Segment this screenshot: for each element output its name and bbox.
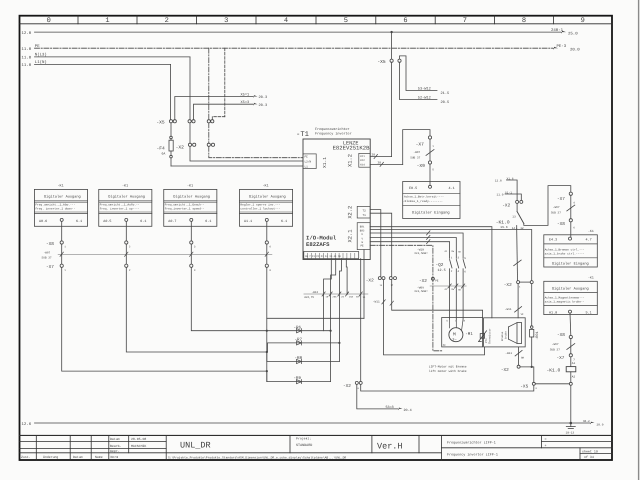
svg-text:14: 14 bbox=[512, 227, 516, 230]
svg-text:freq. inverter_1 down--: freq. inverter_1 down-- bbox=[35, 207, 75, 211]
svg-text:L1: L1 bbox=[305, 165, 309, 168]
column numbers 0-9 bbox=[47, 17, 585, 25]
terminal X2 pair (T2 wire) bbox=[378, 277, 385, 280]
svg-text:Achse_1_Bremse ctrl.---: Achse_1_Bremse ctrl.--- bbox=[545, 247, 585, 251]
wire K11 bbox=[370, 156, 391, 158]
svg-text:=: = bbox=[545, 438, 547, 442]
svg-text:12.5: 12.5 bbox=[438, 268, 446, 273]
svg-text:30: 30 bbox=[378, 161, 382, 164]
svg-text:sheet 19: sheet 19 bbox=[582, 449, 598, 453]
wire N to inverter bbox=[190, 146, 303, 161]
svg-text:A2: A2 bbox=[572, 376, 576, 379]
svg-text:20.3: 20.3 bbox=[259, 103, 268, 108]
svg-text:Achse_1_Betr.bereit----: Achse_1_Betr.bereit---- bbox=[404, 195, 444, 199]
svg-text:of 34: of 34 bbox=[584, 455, 594, 459]
svg-text:SUB 37: SUB 37 bbox=[550, 349, 560, 352]
svg-text:PE: PE bbox=[361, 245, 365, 248]
svg-text:Datum: Datum bbox=[73, 455, 83, 459]
svg-text:-K1: -K1 bbox=[588, 275, 594, 279]
svg-text:4.1: 4.1 bbox=[449, 186, 455, 191]
svg-text:-X2: -X2 bbox=[366, 278, 374, 283]
cable W13 line bbox=[304, 293, 368, 295]
svg-text:28.05.08: 28.05.08 bbox=[131, 437, 146, 441]
svg-text:Ver.H: Ver.H bbox=[377, 442, 403, 452]
svg-text:PE: PE bbox=[35, 44, 40, 49]
svg-text:A1: A1 bbox=[572, 362, 576, 365]
terminal X7 row bbox=[60, 264, 268, 267]
svg-text:-X8: -X8 bbox=[557, 222, 565, 227]
svg-text:PE-3: PE-3 bbox=[557, 44, 567, 49]
svg-text:Datum: Datum bbox=[110, 437, 120, 441]
svg-text:-W11: -W11 bbox=[373, 301, 380, 304]
terminal X2 pair (PE branch) bbox=[208, 123, 210, 143]
svg-text:Digitaler Ausgang: Digitaler Ausgang bbox=[552, 286, 589, 291]
wire X2 to brake box bbox=[517, 284, 519, 318]
wire coil A2 to X5 bbox=[535, 383, 569, 385]
module bottom terminal strip bbox=[304, 252, 359, 259]
column header row bbox=[20, 16, 613, 24]
svg-text:-X7: -X7 bbox=[46, 265, 54, 270]
svg-text:-KlemLa_1_ready--------: -KlemLa_1_ready-------- bbox=[403, 199, 443, 203]
svg-text:-K1: -K1 bbox=[187, 183, 193, 188]
cable W11 crossing (T wires) bbox=[382, 300, 394, 306]
svg-text:19.8: 19.8 bbox=[500, 226, 507, 229]
svg-text:10-13: 10-13 bbox=[566, 431, 575, 434]
svg-text:-X7: -X7 bbox=[416, 141, 425, 147]
wire 53-W12 to sheet 21.5 bbox=[400, 56, 438, 91]
terminal X7 (coil chain) bbox=[569, 354, 572, 357]
svg-text:-X2: -X2 bbox=[343, 384, 351, 389]
svg-text:-W10: -W10 bbox=[417, 248, 424, 251]
cable W10 label bbox=[414, 248, 428, 255]
cable W07 crossing (coil chain) bbox=[567, 344, 575, 350]
svg-text:Frequency inverter LIFP-1: Frequency inverter LIFP-1 bbox=[447, 453, 498, 458]
svg-text:4.7: 4.7 bbox=[586, 238, 592, 243]
svg-text:X1.2: X1.2 bbox=[348, 154, 354, 167]
terminal X2 pair (N branch) bbox=[189, 123, 191, 143]
svg-text:-Q2: -Q2 bbox=[436, 263, 444, 268]
svg-text:BR1: BR1 bbox=[360, 226, 365, 229]
svg-text:-R01: -R01 bbox=[535, 331, 540, 340]
svg-text:S:\Projekte_Produkte\Produkte_: S:\Projekte_Produkte\Produkte_Standard\A… bbox=[168, 455, 346, 459]
svg-text:20A: 20A bbox=[333, 296, 338, 299]
wire U phase bbox=[370, 233, 463, 258]
terminal X9 bbox=[428, 161, 431, 164]
svg-text:PE: PE bbox=[305, 156, 309, 159]
svg-text:Frequency inverter: Frequency inverter bbox=[315, 132, 352, 137]
wire PTC top bbox=[392, 280, 483, 318]
terminal X5 pair 1 bbox=[169, 120, 176, 123]
svg-text:12.0: 12.0 bbox=[495, 179, 502, 182]
wire N drop to X5 bbox=[189, 57, 191, 120]
PLC input box E4.3 bbox=[544, 229, 598, 267]
svg-text:6A: 6A bbox=[162, 152, 166, 156]
svg-text:4x1,5mm²: 4x1,5mm² bbox=[414, 252, 428, 255]
wire L1 to inverter bbox=[171, 165, 303, 167]
svg-text:Freq.umricht._1_Aufw.--: Freq.umricht._1_Aufw.-- bbox=[100, 202, 140, 206]
node junction on bus 12.0 bbox=[390, 31, 392, 33]
brake coil symbol bbox=[509, 323, 522, 344]
pin marks at X2 pairs bbox=[358, 284, 538, 390]
svg-text:Gepr.: Gepr. bbox=[110, 449, 120, 453]
wire K14 riser to X7 bbox=[403, 130, 430, 165]
svg-text:Digitaler Eingang: Digitaler Eingang bbox=[552, 262, 589, 267]
svg-text:-X7: -X7 bbox=[557, 356, 565, 361]
svg-text:M: M bbox=[453, 331, 456, 337]
wire BR1 bbox=[370, 227, 492, 318]
wire 51-1 from sheet 11.0 bbox=[497, 191, 513, 196]
svg-text:-W11: -W11 bbox=[505, 352, 512, 355]
bus PE (dash-dot) bbox=[35, 47, 554, 49]
svg-text:Achse_1_Magnetbremse---: Achse_1_Magnetbremse--- bbox=[545, 295, 585, 299]
svg-text:A0.6: A0.6 bbox=[39, 219, 47, 224]
svg-text:BR2: BR2 bbox=[360, 229, 365, 232]
svg-text:-X7: -X7 bbox=[557, 197, 565, 202]
svg-text:L2/N: L2/N bbox=[305, 159, 312, 163]
svg-text:38-2: 38-2 bbox=[583, 420, 590, 423]
inverter terminal block X2.2 bbox=[357, 206, 370, 218]
terminal X8 (coil chain) bbox=[569, 335, 572, 338]
wire PE dashed branch bbox=[212, 48, 225, 120]
svg-text:-W11: -W11 bbox=[505, 308, 512, 311]
wire X2 branch to sheet 20.4 bbox=[357, 384, 398, 409]
svg-text:axis_1_brake ctrl.-----: axis_1_brake ctrl.----- bbox=[545, 252, 585, 256]
node junctions on chain 4 bbox=[266, 330, 268, 332]
svg-text:20.0: 20.0 bbox=[570, 48, 580, 53]
svg-text:53=8: 53=8 bbox=[386, 405, 394, 410]
cable crossing on feed bbox=[514, 260, 522, 266]
PTC thermistor bbox=[479, 331, 487, 342]
svg-text:L1(N): L1(N) bbox=[35, 60, 47, 65]
svg-text:lift motor with brake: lift motor with brake bbox=[429, 369, 467, 373]
wire chain 1 (A0.6) to R9 bbox=[62, 267, 267, 371]
svg-text:PE: PE bbox=[435, 280, 439, 283]
wire brake return to X2 bottom bbox=[518, 347, 520, 365]
svg-text:E4.3: E4.3 bbox=[549, 238, 557, 243]
terminal X8 row bbox=[60, 241, 268, 244]
svg-text:7: 7 bbox=[463, 17, 467, 25]
svg-text:52-W12: 52-W12 bbox=[418, 96, 431, 101]
svg-text:K11: K11 bbox=[360, 155, 365, 158]
svg-text:Bremse: Bremse bbox=[501, 331, 504, 341]
svg-text:Digitaler Eingang: Digitaler Eingang bbox=[412, 210, 450, 215]
bus N(L3) bbox=[35, 56, 191, 58]
svg-text:-X8: -X8 bbox=[46, 242, 54, 247]
terminal X7 pin 4 bbox=[569, 192, 572, 195]
svg-text:-W07: -W07 bbox=[552, 343, 559, 346]
svg-text:6: 6 bbox=[403, 17, 407, 25]
inverter / I/O module U1 outer box bbox=[303, 139, 370, 260]
cable W09 crossing line bbox=[430, 285, 466, 287]
svg-text:Digitaler Ausgang: Digitaler Ausgang bbox=[249, 194, 286, 199]
svg-text:12.6: 12.6 bbox=[22, 422, 32, 427]
svg-text:A0.5: A0.5 bbox=[103, 219, 111, 224]
page right scan edge bbox=[638, 0, 640, 480]
svg-text:-K1: -K1 bbox=[263, 183, 269, 188]
terminal X8 pin 6 bbox=[569, 219, 572, 222]
svg-text:X2.1: X2.1 bbox=[348, 230, 354, 243]
cable W07 SUB37 line bbox=[58, 253, 272, 255]
terminal X2 (brake return) bbox=[517, 365, 520, 368]
svg-text:X2.2: X2.2 bbox=[348, 206, 354, 219]
cable W07 crossing (top chain) bbox=[426, 150, 434, 156]
wire contact pin 12 to X7/4 bbox=[524, 186, 571, 226]
svg-text:20.3: 20.3 bbox=[259, 95, 268, 100]
svg-text:Freq.umricht._1_Gesch--: Freq.umricht._1_Gesch-- bbox=[165, 202, 205, 206]
wire W phase bbox=[370, 242, 449, 259]
PLC output box A0.7 bbox=[164, 183, 217, 226]
svg-text:20.5: 20.5 bbox=[441, 100, 450, 105]
wire 52-W12 to sheet 20.5 bbox=[400, 62, 438, 99]
svg-text:A1.1: A1.1 bbox=[244, 219, 252, 224]
wire coil to bottom rail bbox=[570, 385, 572, 423]
svg-text:20: 20 bbox=[372, 153, 376, 156]
svg-text:X5=3: X5=3 bbox=[241, 100, 250, 105]
svg-text:11.0: 11.0 bbox=[22, 63, 32, 68]
wire X2 to X5 (bottom run) bbox=[361, 384, 534, 391]
svg-text:240-1: 240-1 bbox=[551, 28, 564, 33]
svg-text:-W13: -W13 bbox=[312, 291, 319, 294]
terminal X5 (coil return) bbox=[532, 382, 535, 385]
svg-text:E0.5: E0.5 bbox=[409, 186, 417, 191]
svg-text:Änderung: Änderung bbox=[43, 455, 58, 459]
fuse F4 bbox=[169, 123, 173, 166]
ground / sheet refs 10-13 bbox=[566, 423, 575, 429]
svg-text:N(L3): N(L3) bbox=[35, 53, 47, 58]
wires PLC outputs to X8 terminals bbox=[62, 221, 267, 241]
svg-text:6.1: 6.1 bbox=[205, 219, 211, 224]
cable W07 crossing (X7/4) bbox=[567, 205, 575, 211]
wire T2 bbox=[370, 210, 381, 277]
svg-text:Thermistor: Thermistor bbox=[489, 328, 492, 344]
svg-text:K12: K12 bbox=[360, 159, 365, 162]
svg-text:28.0: 28.0 bbox=[597, 424, 604, 427]
wire BR2 bbox=[370, 230, 532, 281]
relay contact K1.0 (changeover) bbox=[516, 203, 518, 211]
svg-text:-K1.0: -K1.0 bbox=[496, 219, 510, 225]
svg-text:-X2: -X2 bbox=[501, 368, 509, 373]
inverter relay terminal block X1.2 bbox=[359, 153, 370, 167]
svg-text:brake: brake bbox=[504, 331, 507, 339]
svg-text:T2: T2 bbox=[363, 209, 367, 212]
svg-text:-R9: -R9 bbox=[294, 376, 302, 381]
motor protection switch Q2 bbox=[436, 263, 446, 273]
wire brake feed (contact 14) bbox=[516, 229, 519, 281]
svg-text:-K1.0: -K1.0 bbox=[547, 368, 561, 374]
svg-text:A1.0: A1.0 bbox=[549, 311, 557, 316]
wire chain 2 (A0.5) to R7 bbox=[126, 267, 266, 352]
PLC output box A1.1 bbox=[240, 183, 293, 226]
wire K14 bbox=[370, 164, 403, 166]
svg-text:Regler_1 sperre inv.---: Regler_1 sperre inv.--- bbox=[240, 202, 280, 206]
wire chain 3 (A0.7) to R6 bbox=[191, 267, 330, 330]
svg-text:-W07: -W07 bbox=[553, 206, 560, 209]
svg-text:3: 3 bbox=[224, 17, 228, 25]
svg-text:Zust.: Zust. bbox=[21, 455, 31, 459]
svg-text:Frequenzumrichter: Frequenzumrichter bbox=[315, 127, 350, 132]
svg-text:UNL_DR: UNL_DR bbox=[180, 441, 211, 451]
PLC output box A0.6 bbox=[34, 183, 87, 226]
terminal X2 (control) bbox=[516, 200, 523, 203]
resistor R01 bbox=[531, 284, 533, 326]
svg-text:SUB 37: SUB 37 bbox=[551, 212, 561, 215]
wire R7 run bbox=[268, 343, 340, 352]
title block bbox=[20, 435, 613, 459]
terminal X7 (top chain) bbox=[428, 136, 431, 139]
svg-text:controller_1 lockout---: controller_1 lockout--- bbox=[240, 207, 280, 211]
svg-text:53-W12: 53-W12 bbox=[418, 87, 431, 92]
svg-text:12.0: 12.0 bbox=[22, 31, 32, 36]
svg-text:4x0,75: 4x0,75 bbox=[304, 296, 314, 299]
svg-text:25.0: 25.0 bbox=[568, 32, 578, 37]
svg-text:-X2: -X2 bbox=[502, 204, 510, 209]
terminal X5 pair 3 bbox=[207, 120, 214, 123]
svg-text:5: 5 bbox=[344, 17, 348, 25]
node junctions at module risers bbox=[330, 330, 332, 332]
svg-text:Frequenzumrichter LIFP-1: Frequenzumrichter LIFP-1 bbox=[447, 440, 496, 445]
svg-text:Name: Name bbox=[95, 455, 103, 459]
svg-text:9.1: 9.1 bbox=[586, 311, 592, 316]
svg-text:-X5: -X5 bbox=[377, 59, 386, 65]
svg-text:9: 9 bbox=[581, 17, 585, 25]
svg-text:-K1: -K1 bbox=[58, 183, 64, 188]
terminal X2 pair (T1 wire) bbox=[389, 277, 396, 280]
wire PTC bottom bbox=[384, 280, 485, 355]
wire X5=1 to sheet 20.3 bbox=[175, 97, 253, 120]
svg-text:-M1: -M1 bbox=[465, 332, 473, 337]
svg-text:SUB 37: SUB 37 bbox=[410, 157, 420, 160]
wire T1 bbox=[370, 213, 392, 276]
svg-text:-W09: -W09 bbox=[417, 286, 424, 289]
svg-text:11.0: 11.0 bbox=[22, 47, 32, 52]
svg-text:freq.inverter_1 speed--: freq.inverter_1 speed-- bbox=[165, 207, 205, 211]
svg-text:6.1: 6.1 bbox=[281, 219, 287, 224]
svg-text:-X5: -X5 bbox=[520, 385, 528, 390]
PLC output box A0.5 bbox=[99, 183, 152, 226]
svg-text:-X2: -X2 bbox=[176, 145, 185, 151]
bus 12.0 (top rail) bbox=[35, 31, 562, 33]
svg-text:MACSCHIK: MACSCHIK bbox=[131, 444, 146, 448]
svg-text:20.4: 20.4 bbox=[404, 408, 412, 413]
svg-text:1: 1 bbox=[105, 17, 109, 25]
wire R9 run bbox=[267, 371, 331, 382]
PLC output box A1.0 bbox=[544, 275, 598, 315]
module down-wires staircase bbox=[324, 250, 364, 382]
svg-text:-X5: -X5 bbox=[156, 119, 165, 125]
svg-text:Digitaler Ausgang: Digitaler Ausgang bbox=[173, 194, 210, 199]
svg-text:21.5: 21.5 bbox=[441, 91, 450, 96]
svg-text:4: 4 bbox=[284, 17, 288, 25]
svg-text:-X2: -X2 bbox=[419, 279, 427, 284]
brake module box bbox=[484, 318, 526, 347]
svg-text:-X9: -X9 bbox=[417, 163, 426, 169]
svg-text:Digitaler Ausgang: Digitaler Ausgang bbox=[108, 194, 145, 199]
wire number marks at Q2 bbox=[445, 250, 462, 291]
svg-text:2: 2 bbox=[165, 17, 169, 25]
svg-text:11.0: 11.0 bbox=[497, 193, 504, 196]
svg-text:-X8: -X8 bbox=[557, 333, 565, 338]
title block texts bbox=[21, 436, 598, 459]
svg-text:X1.1: X1.1 bbox=[322, 157, 328, 168]
svg-text:Norm: Norm bbox=[111, 455, 119, 459]
svg-text:STANDARD: STANDARD bbox=[296, 443, 312, 448]
svg-text:Bearb.: Bearb. bbox=[110, 444, 122, 448]
svg-text:E82EV251K2B: E82EV251K2B bbox=[333, 144, 371, 151]
svg-text:Digitaler Ausgang: Digitaler Ausgang bbox=[44, 194, 81, 199]
svg-text:K14: K14 bbox=[360, 163, 365, 166]
svg-text:-F4: -F4 bbox=[157, 146, 166, 152]
motor M1 bbox=[449, 328, 463, 342]
wire chain 4 (A1.1) riser bbox=[266, 267, 268, 381]
wire PE drop to X5 (dash-dot) bbox=[208, 48, 210, 120]
wire PE to inverter (dash-dot) bbox=[209, 146, 303, 157]
wire X5=3 to sheet 20.3 bbox=[194, 104, 254, 120]
svg-text:26A: 26A bbox=[349, 296, 354, 299]
svg-text:4x1,5mm²: 4x1,5mm² bbox=[414, 290, 428, 293]
terminal X5 (middle) bbox=[390, 59, 401, 62]
wire bus to X5 middle bbox=[391, 32, 393, 59]
svg-text:6.1: 6.1 bbox=[76, 219, 82, 224]
inverter terminal block X2.1 bbox=[357, 223, 370, 250]
svg-text:LIFT-Motor mit Bremse: LIFT-Motor mit Bremse bbox=[429, 364, 467, 368]
frequency inverter T1 label bbox=[296, 127, 352, 139]
wire chain 4 branch to module bbox=[267, 317, 364, 319]
svg-text:12: 12 bbox=[520, 227, 524, 230]
inverter input terminal block X1.1 bbox=[303, 154, 316, 169]
svg-text:11.0: 11.0 bbox=[22, 56, 32, 61]
svg-text:axis_1_magnetic brake--: axis_1_magnetic brake-- bbox=[545, 300, 585, 304]
wire V phase bbox=[370, 238, 456, 259]
wire PE to motor (dash-dot) bbox=[370, 245, 442, 350]
svg-text:T1: T1 bbox=[363, 214, 367, 217]
wire X2 return to X5 node bbox=[520, 367, 534, 382]
svg-text:Freq.umricht._1_Abw.---: Freq.umricht._1_Abw.--- bbox=[35, 202, 75, 206]
terminal X2 pair (bottom, brake return) bbox=[355, 381, 362, 384]
svg-text:-T1: -T1 bbox=[296, 131, 309, 139]
terminal X2 pair (brake) bbox=[517, 281, 534, 284]
terminal X2 PE on dash-dot bbox=[431, 277, 434, 280]
svg-text:SUB 37: SUB 37 bbox=[42, 256, 52, 259]
terminal X5 pair 2 bbox=[188, 120, 195, 123]
svg-text:-K1: -K1 bbox=[588, 229, 594, 233]
wire X5 down to inverter K11 bbox=[391, 62, 393, 156]
motor M1 enclosure bbox=[442, 318, 483, 347]
svg-text:E82ZAFS: E82ZAFS bbox=[306, 241, 330, 248]
wire L1 drop to X5 bbox=[170, 64, 172, 119]
svg-text:8: 8 bbox=[522, 17, 526, 25]
cable W11 crossing (brake in) bbox=[515, 307, 522, 313]
bus L1(N) bbox=[35, 63, 171, 65]
wire A1.0 down to X8 bbox=[569, 313, 572, 335]
wire X1.6 from sheet 12.0 bbox=[495, 177, 514, 182]
svg-text:freq. inverter_1 up----: freq. inverter_1 up---- bbox=[100, 207, 140, 211]
svg-text:13: 13 bbox=[512, 215, 516, 218]
I/O module label bbox=[306, 235, 337, 249]
svg-text:-W07: -W07 bbox=[413, 151, 420, 154]
wire R8 run bbox=[267, 352, 340, 362]
svg-text:Projekt:: Projekt: bbox=[296, 436, 311, 440]
svg-text:6.1: 6.1 bbox=[140, 219, 146, 224]
svg-text:X5=1: X5=1 bbox=[241, 92, 250, 97]
svg-text:+: + bbox=[545, 444, 547, 448]
svg-text:-X2: -X2 bbox=[504, 283, 512, 288]
svg-text:-K1: -K1 bbox=[122, 183, 128, 188]
wires X8 to X7 through cable bbox=[62, 244, 267, 264]
lift motor note bbox=[429, 364, 467, 373]
PLC input box E0.5 bbox=[403, 182, 460, 219]
svg-text:3~: 3~ bbox=[452, 338, 456, 343]
svg-text:0: 0 bbox=[47, 17, 51, 25]
